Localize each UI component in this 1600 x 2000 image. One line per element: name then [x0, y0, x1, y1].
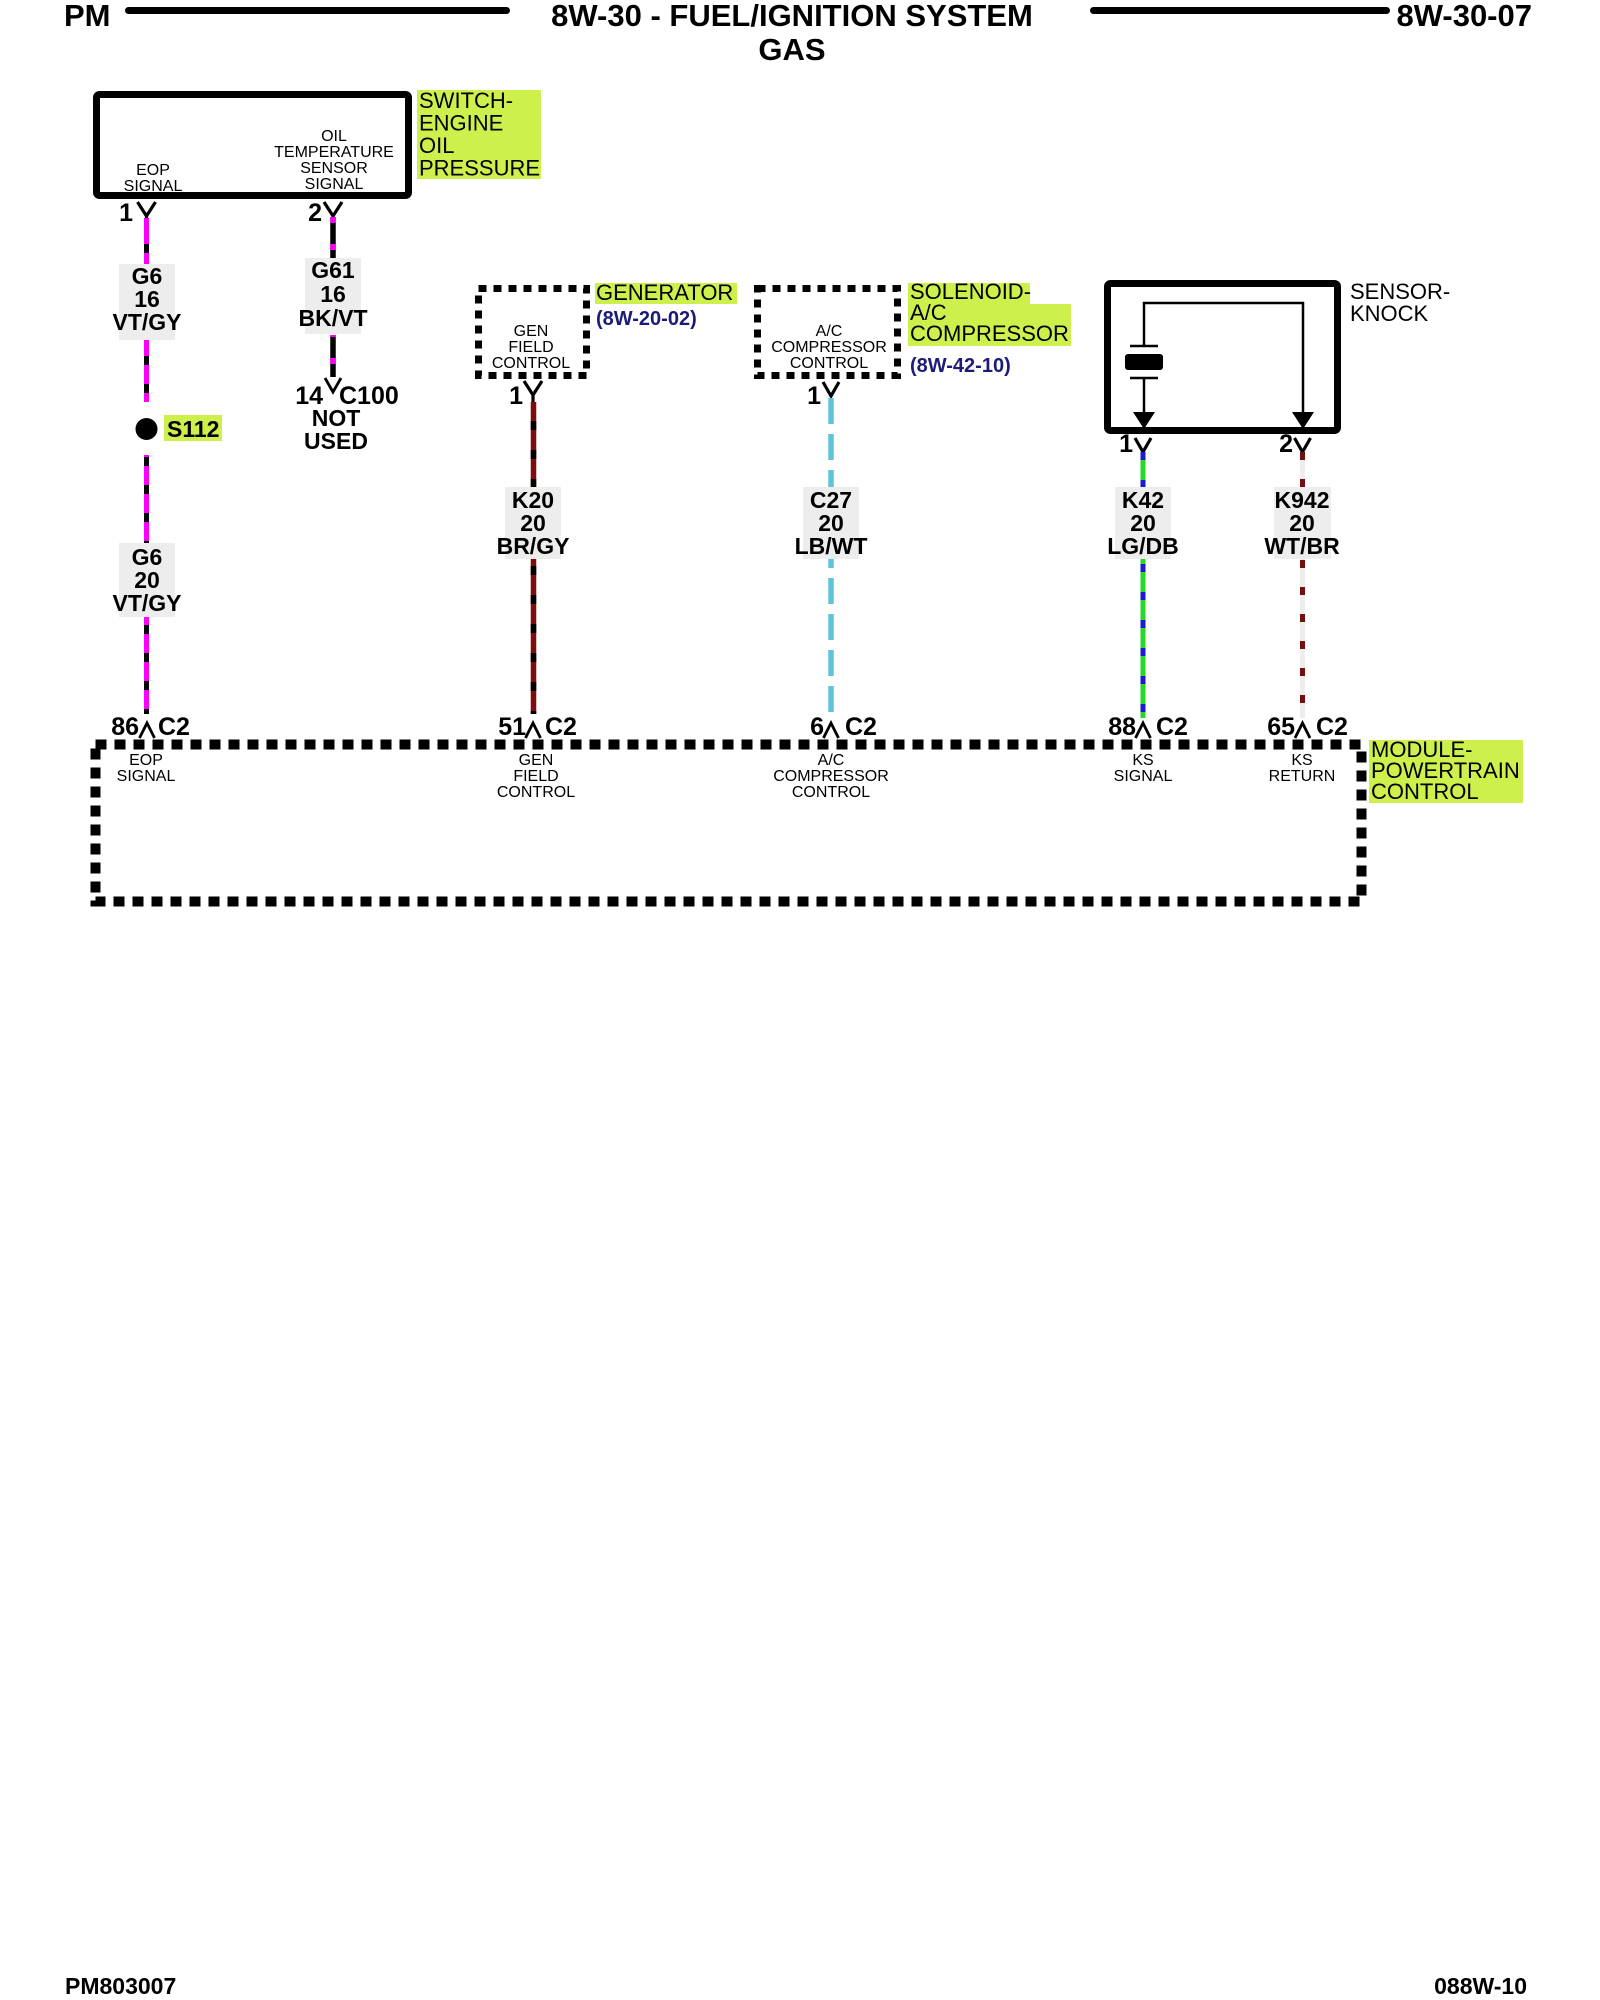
svg-text:CONTROL: CONTROL [790, 355, 868, 372]
wire G6 20 VT/GY lower segment [144, 455, 149, 714]
svg-text:2: 2 [308, 199, 322, 227]
wire C27 20 LB/WT [828, 398, 834, 718]
svg-text:SENSOR: SENSOR [300, 160, 368, 177]
capacitor plate bottom [1130, 377, 1158, 380]
wire G61 16 BK/VT upper segment [330, 217, 336, 258]
svg-text:SWITCH-: SWITCH- [419, 88, 513, 113]
wire label K20 20 BR/GY [505, 487, 561, 559]
wire label K942 20 WT/BR [1274, 487, 1331, 559]
svg-text:6: 6 [810, 713, 824, 741]
svg-text:C2: C2 [1316, 713, 1348, 741]
svg-text:USED: USED [304, 428, 368, 454]
svg-text:1: 1 [1119, 430, 1133, 458]
svg-text:1: 1 [509, 382, 523, 410]
highlight label MODULE-POWERTRAIN CONTROL [1369, 740, 1523, 803]
knock sensor internal wiring [1144, 303, 1303, 416]
svg-text:SIGNAL: SIGNAL [1114, 768, 1173, 785]
wire label K42 20 LG/DB [1115, 487, 1171, 559]
svg-text:8W-30-07: 8W-30-07 [1397, 0, 1533, 33]
svg-text:KS: KS [1291, 752, 1312, 769]
svg-text:PRESSURE: PRESSURE [419, 156, 540, 181]
svg-text:C2: C2 [845, 713, 877, 741]
highlight label SOLENOID-A/C COMPRESSOR [908, 283, 1030, 304]
svg-text:(8W-42-10): (8W-42-10) [910, 355, 1011, 377]
svg-text:C2: C2 [1156, 713, 1188, 741]
wire K42 20 LG/DB [1141, 452, 1146, 718]
svg-text:VT/GY: VT/GY [112, 309, 181, 335]
knock sensor box [1108, 284, 1338, 431]
wire label C27 20 LB/WT [803, 487, 859, 559]
svg-text:GENERATOR: GENERATOR [596, 280, 733, 305]
svg-text:PM803007: PM803007 [65, 1973, 176, 1999]
wire label G61 16 BK/VT [305, 258, 361, 334]
svg-text:CONTROL: CONTROL [492, 355, 570, 372]
svg-text:(8W-20-02): (8W-20-02) [596, 308, 697, 330]
svg-text:COMPRESSOR: COMPRESSOR [773, 768, 889, 785]
svg-text:COMPRESSOR: COMPRESSOR [910, 321, 1069, 346]
svg-text:65: 65 [1267, 713, 1295, 741]
svg-text:088W-10: 088W-10 [1434, 1973, 1527, 1999]
svg-text:1: 1 [119, 199, 133, 227]
A/C compressor dashed box [758, 289, 898, 376]
svg-text:88: 88 [1108, 713, 1136, 741]
svg-text:16: 16 [320, 281, 346, 307]
generator dashed box [479, 289, 587, 376]
svg-text:CONTROL: CONTROL [497, 784, 575, 801]
svg-text:SIGNAL: SIGNAL [305, 176, 364, 193]
svg-text:OIL: OIL [321, 128, 347, 145]
svg-text:GAS: GAS [758, 32, 825, 67]
svg-text:1: 1 [807, 382, 821, 410]
svg-text:8W-30 - FUEL/IGNITION SYSTEM: 8W-30 - FUEL/IGNITION SYSTEM [551, 0, 1033, 33]
wire G6 16 VT/GY upper segment [144, 218, 149, 402]
svg-text:CONTROL: CONTROL [1371, 779, 1479, 804]
svg-text:PM: PM [64, 0, 111, 33]
component box: switch-engine oil pressure [97, 95, 409, 196]
header rule left [125, 7, 510, 14]
svg-text:C2: C2 [545, 713, 577, 741]
wire label G6 20 VT/GY [119, 543, 175, 617]
lead to pin 1 with arrow [1143, 378, 1146, 416]
svg-text:KS: KS [1132, 752, 1153, 769]
svg-text:COMPRESSOR: COMPRESSOR [771, 339, 887, 356]
svg-text:SIGNAL: SIGNAL [124, 178, 183, 195]
svg-text:C2: C2 [158, 713, 190, 741]
highlight label SWITCH-ENGINE OIL PRESSURE [417, 90, 541, 179]
svg-text:G61: G61 [311, 257, 355, 283]
header rule right [1090, 7, 1390, 14]
svg-text:RETURN: RETURN [1269, 768, 1336, 785]
svg-text:TEMPERATURE: TEMPERATURE [274, 144, 394, 161]
svg-text:A/C: A/C [816, 323, 843, 340]
svg-text:LB/WT: LB/WT [795, 533, 868, 559]
svg-text:S112: S112 [167, 416, 219, 442]
svg-text:FIELD: FIELD [513, 768, 558, 785]
svg-text:86: 86 [111, 713, 139, 741]
svg-text:ENGINE: ENGINE [419, 111, 503, 136]
svg-text:51: 51 [498, 713, 526, 741]
arrow to pin 2 [1292, 412, 1314, 429]
svg-text:GEN: GEN [519, 752, 554, 769]
svg-text:LG/DB: LG/DB [1107, 533, 1179, 559]
wire K20 20 BR/GY [531, 402, 537, 714]
capacitor plate top [1130, 345, 1158, 348]
connector C100 symbol [325, 378, 341, 392]
wire label G6 16 VT/GY [119, 264, 175, 340]
svg-text:VT/GY: VT/GY [112, 590, 181, 616]
wire G61 16 BK/VT lower segment [330, 335, 336, 377]
svg-text:EOP: EOP [129, 752, 163, 769]
svg-text:EOP: EOP [136, 162, 170, 179]
svg-text:CONTROL: CONTROL [792, 784, 870, 801]
svg-text:WT/BR: WT/BR [1264, 533, 1340, 559]
svg-text:OIL: OIL [419, 133, 454, 158]
splice S112 [136, 418, 158, 440]
svg-text:KNOCK: KNOCK [1350, 301, 1429, 326]
svg-text:2: 2 [1279, 430, 1293, 458]
svg-text:BR/GY: BR/GY [497, 533, 570, 559]
highlight label GENERATOR [595, 283, 737, 304]
svg-text:FIELD: FIELD [508, 339, 553, 356]
svg-text:A/C: A/C [818, 752, 845, 769]
piezo crystal element [1125, 354, 1163, 370]
svg-text:GEN: GEN [514, 323, 549, 340]
wire K942 20 WT/BR [1300, 452, 1305, 718]
svg-text:SIGNAL: SIGNAL [117, 768, 176, 785]
svg-text:BK/VT: BK/VT [299, 305, 368, 331]
PCM module dashed box [96, 745, 1362, 902]
